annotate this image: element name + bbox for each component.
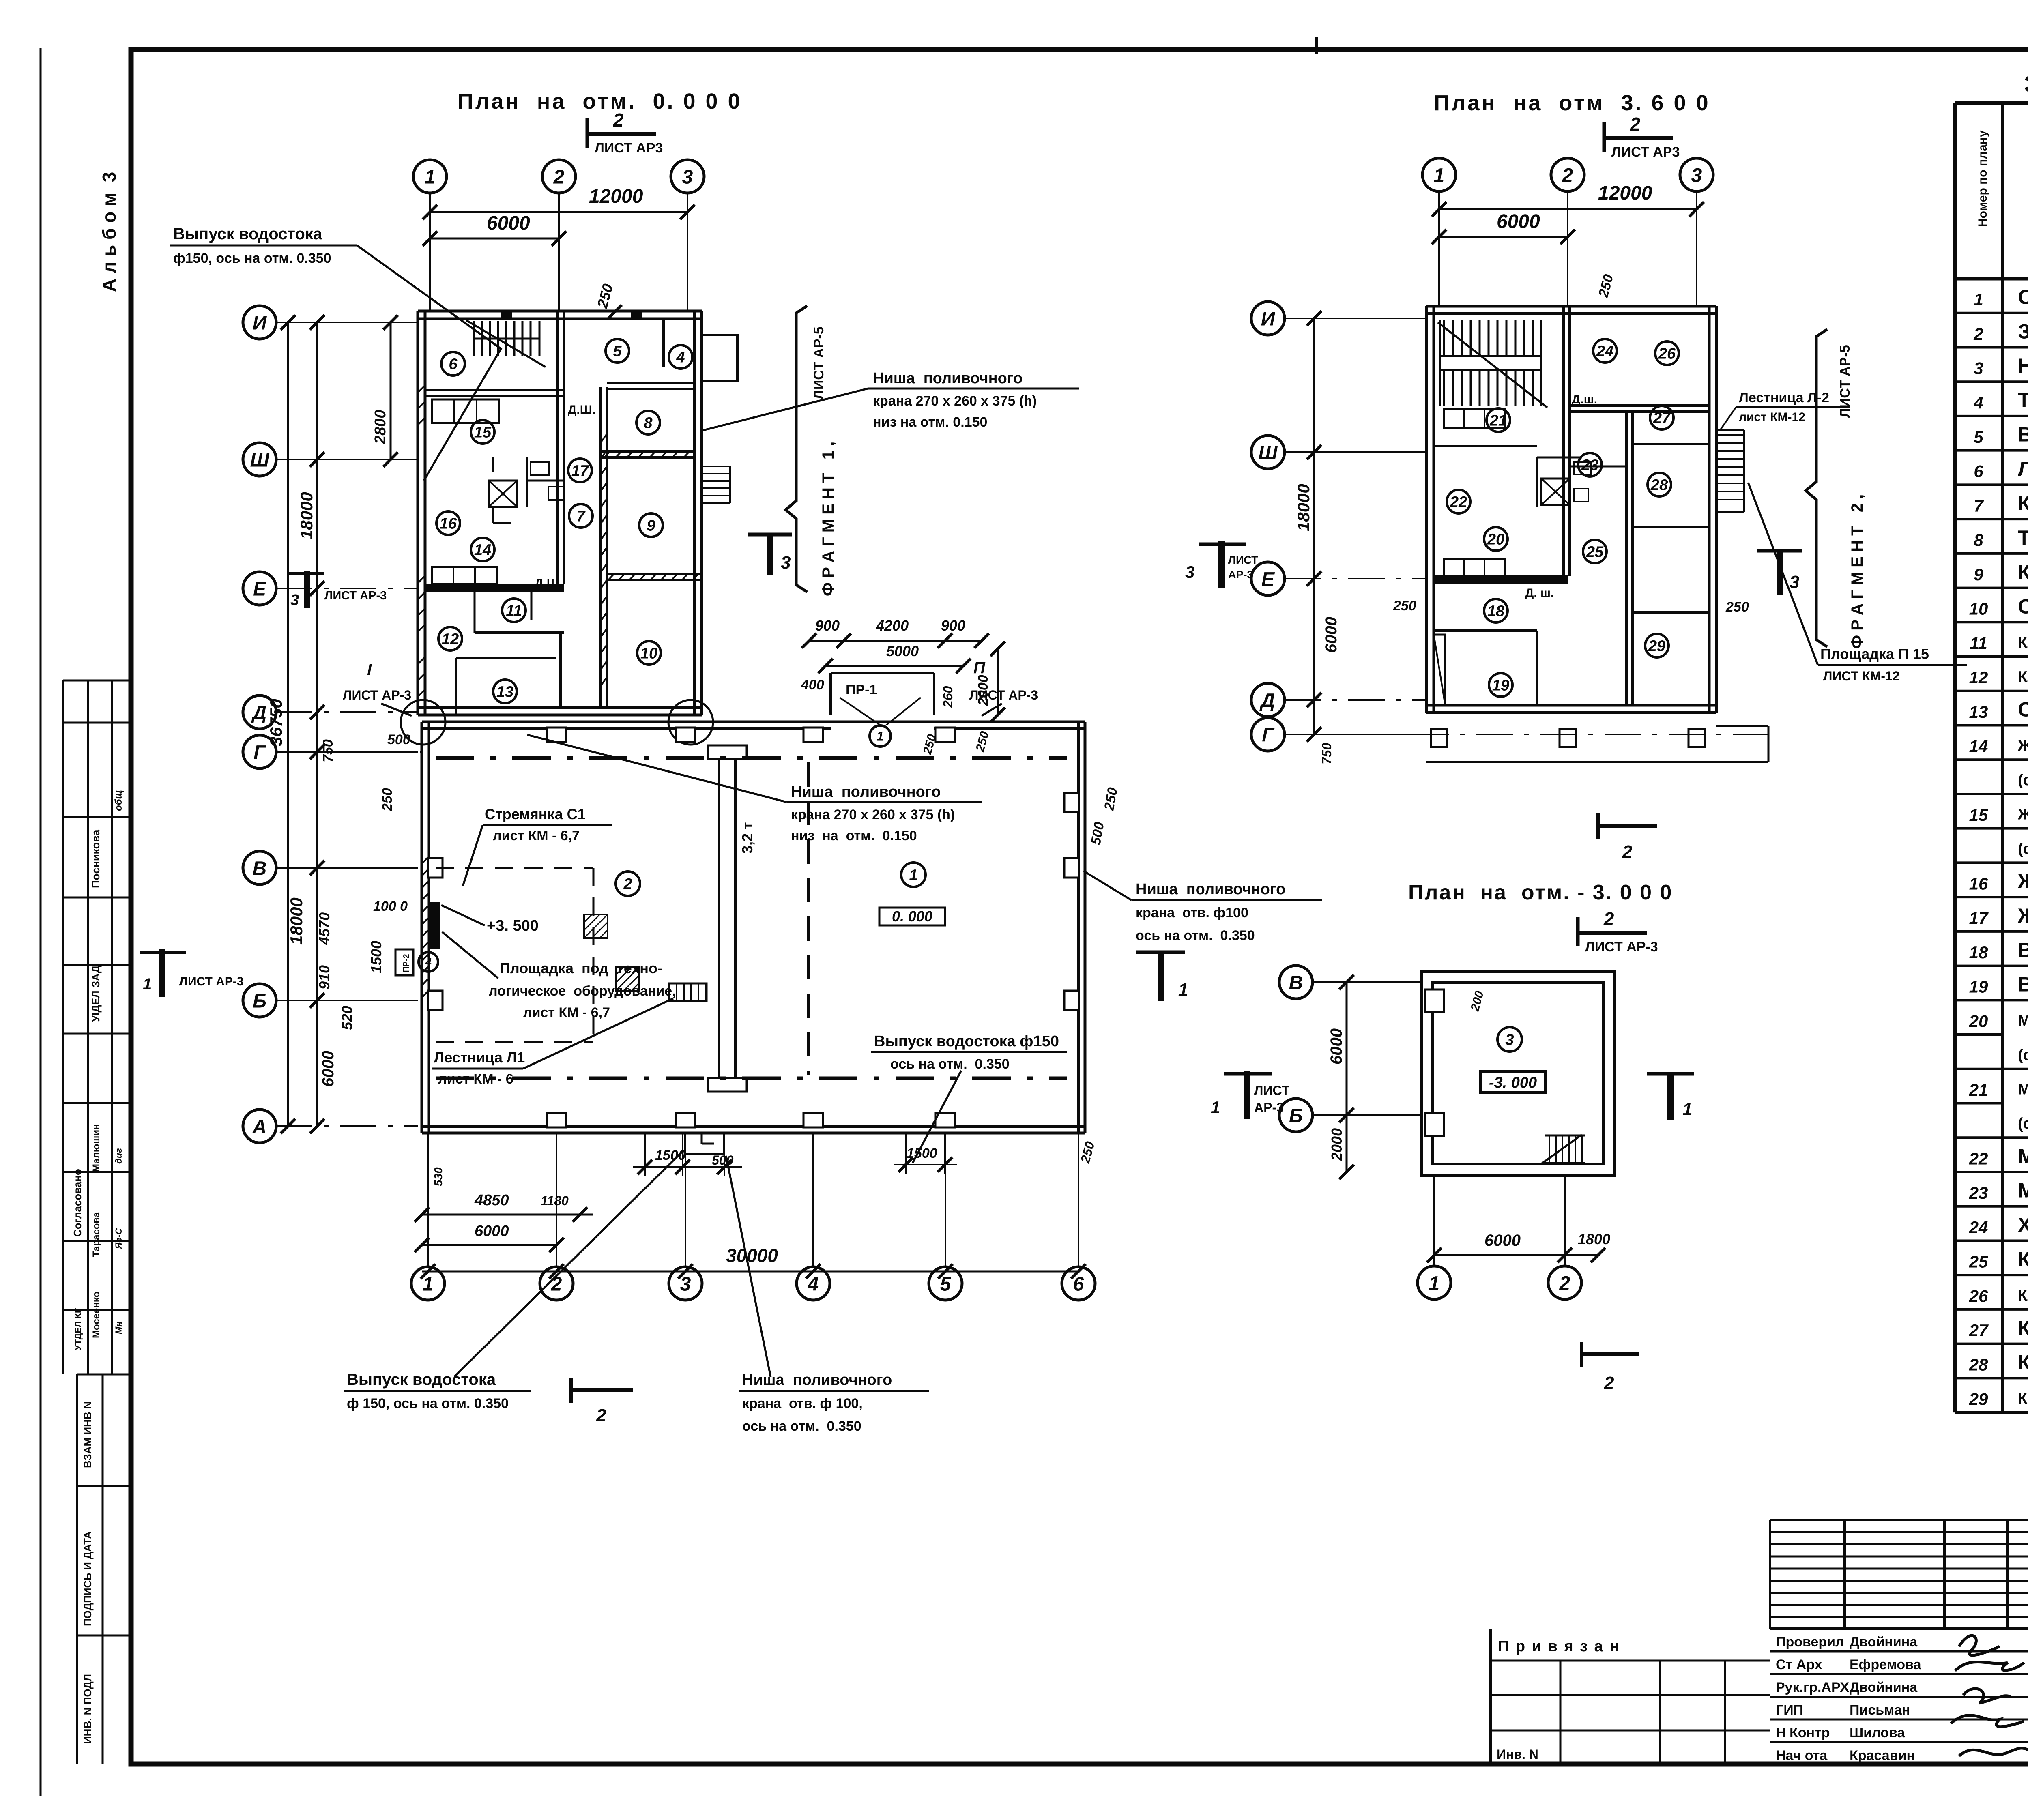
small plan axes <box>1279 966 1313 999</box>
partitions lower rooms 11 12 13 <box>475 631 564 634</box>
left plan: left vertical dim lines <box>287 322 289 1126</box>
svg-text:250: 250 <box>380 788 395 811</box>
svg-text:Красавин: Красавин <box>1850 1748 1915 1763</box>
svg-text:ф150, ось на отм. 0.350: ф150, ось на отм. 0.350 <box>173 251 331 266</box>
svg-text:Яе-С: Яе-С <box>114 1228 124 1249</box>
svg-text:Насосное отделение: Насосное отделение <box>2018 354 2028 377</box>
svg-text:Двойнина: Двойнина <box>1850 1680 1918 1695</box>
svg-text:20: 20 <box>1487 531 1504 548</box>
bottom cut mark 2 (small plan) <box>1582 1342 1639 1393</box>
svg-text:Площадка под техно-: Площадка под техно- <box>500 960 662 977</box>
svg-text:2: 2 <box>1973 324 1983 343</box>
svg-text:(сан. хар. Шв) на 9 чел.: (сан. хар. Шв) на 9 чел. <box>2018 772 2028 789</box>
svg-text:(сан. хар. Шв) на 9 чел.: (сан. хар. Шв) на 9 чел. <box>2018 840 2028 857</box>
svg-text:28: 28 <box>1969 1355 1988 1374</box>
svg-text:5000: 5000 <box>886 643 919 659</box>
svg-text:10: 10 <box>1969 599 1988 618</box>
svg-text:21: 21 <box>1489 412 1507 429</box>
svg-text:Е: Е <box>1261 569 1275 590</box>
svg-text:1: 1 <box>1974 290 1983 309</box>
svg-text:100 0: 100 0 <box>373 899 408 914</box>
svg-text:Тамбур: Тамбур <box>2018 389 2028 412</box>
svg-text:Экспликация помещений: Экспликация помещений <box>2024 71 2028 98</box>
svg-text:Лестница Л1: Лестница Л1 <box>434 1049 525 1066</box>
svg-text:4: 4 <box>1973 393 1983 412</box>
svg-text:400: 400 <box>801 677 824 693</box>
left stamp column grid <box>62 680 64 1374</box>
G axis dash line <box>276 751 422 753</box>
svg-text:14: 14 <box>1969 737 1988 756</box>
svg-text:1500: 1500 <box>368 941 385 973</box>
svg-text:1800: 1800 <box>1578 1231 1610 1247</box>
middle plan axis circles top <box>1422 158 1456 191</box>
svg-text:А: А <box>252 1116 267 1137</box>
svg-text:Сушка одежды: Сушка одежды <box>2018 698 2028 721</box>
middle plan external stair right <box>1718 430 1744 512</box>
svg-text:5: 5 <box>1974 427 1983 446</box>
svg-text:750: 750 <box>320 739 336 762</box>
wall platform marks left <box>429 902 440 949</box>
svg-text:14: 14 <box>474 542 491 559</box>
svg-text:3: 3 <box>1974 359 1983 378</box>
hall columns (pilasters) <box>547 728 566 742</box>
svg-text:7: 7 <box>1974 496 1984 515</box>
svg-text:13: 13 <box>1969 702 1988 721</box>
svg-text:Кладовая хоз. инвентаря: Кладовая хоз. инвентаря <box>2018 1287 2028 1304</box>
svg-text:Номер по плану: Номер по плану <box>1976 130 1989 227</box>
svg-text:ЛИСТ: ЛИСТ <box>1228 554 1258 566</box>
svg-text:3: 3 <box>1691 165 1702 186</box>
svg-text:900: 900 <box>815 617 840 634</box>
hall bottom door bump <box>684 1133 686 1154</box>
partition rooms 5/4 <box>662 319 665 367</box>
middle plan bottom platform <box>1426 761 1768 763</box>
svg-text:ось на отм. 0.350: ось на отм. 0.350 <box>742 1419 861 1434</box>
svg-text:Ниша поливочного: Ниша поливочного <box>742 1371 892 1389</box>
top wall vent marks <box>501 312 512 319</box>
small plan room mark and level <box>1497 1027 1522 1052</box>
corridor wall lower segment <box>559 633 562 708</box>
svg-text:Н Контр: Н Контр <box>1776 1725 1830 1741</box>
svg-text:19: 19 <box>1969 977 1988 996</box>
svg-text:Тепловой ввод: Тепловой ввод <box>2018 526 2028 549</box>
middle plan room circles <box>1593 339 1617 363</box>
fragment 1 brace and label <box>786 306 807 592</box>
svg-text:ЛИСТ АР-3: ЛИСТ АР-3 <box>179 975 244 988</box>
svg-text:Инв. N: Инв. N <box>1497 1747 1538 1762</box>
svg-text:1: 1 <box>1211 1098 1220 1117</box>
svg-text:2: 2 <box>1630 114 1641 135</box>
svg-text:18: 18 <box>1487 603 1505 620</box>
svg-text:2: 2 <box>1604 1373 1614 1393</box>
svg-text:29: 29 <box>1969 1389 1988 1408</box>
svg-text:ПОДПИСЬ И ДАТА: ПОДПИСЬ И ДАТА <box>82 1531 94 1626</box>
svg-text:18000: 18000 <box>297 492 316 539</box>
svg-text:900: 900 <box>941 617 965 634</box>
svg-text:25: 25 <box>1969 1252 1988 1271</box>
bottom cut mark 2 <box>571 1378 633 1425</box>
svg-text:Ниша поливочного: Ниша поливочного <box>791 783 941 801</box>
svg-text:17: 17 <box>571 463 589 480</box>
svg-text:6000: 6000 <box>1328 1028 1345 1065</box>
svg-text:750: 750 <box>1319 743 1334 764</box>
svg-text:К Т П: К Т П <box>2018 561 2028 584</box>
svg-text:Г: Г <box>1262 724 1275 746</box>
svg-text:260: 260 <box>941 686 955 708</box>
section cut mark under title 3.600 <box>1604 114 1680 160</box>
svg-text:1: 1 <box>1434 165 1445 186</box>
svg-text:Двойнина: Двойнина <box>1850 1634 1918 1650</box>
svg-text:1500: 1500 <box>655 1148 686 1163</box>
svg-text:УІДЕЛ ЗАД: УІДЕЛ ЗАД <box>90 965 102 1022</box>
hall wall hatching left <box>422 856 429 998</box>
svg-text:крана отв. ф 100,: крана отв. ф 100, <box>742 1396 863 1411</box>
svg-text:Мужской гардероб спецодежды: Мужской гардероб спецодежды <box>2018 1012 2028 1029</box>
svg-text:+3. 500: +3. 500 <box>487 917 539 934</box>
svg-text:Женский гардероб спецодежды: Женский гардероб спецодежды <box>2017 737 2028 754</box>
svg-text:2: 2 <box>613 109 624 131</box>
svg-text:12000: 12000 <box>1598 182 1652 204</box>
svg-text:2000: 2000 <box>975 675 991 706</box>
svg-text:18000: 18000 <box>287 897 306 945</box>
middle plan building outer walls <box>1426 305 1716 308</box>
table outer and header lines <box>1955 101 2028 105</box>
svg-text:19: 19 <box>1492 677 1509 694</box>
marker 3 list AR-3 mid left <box>289 571 387 609</box>
left plan porch top right <box>702 335 737 381</box>
left plan: top axis circles 1 2 3 <box>413 160 447 193</box>
svg-text:-3. 000: -3. 000 <box>1489 1074 1537 1091</box>
svg-text:Мужской гардероб дом. и ул. од: Мужской гардероб дом. и ул. одежды <box>2018 1081 2028 1098</box>
svg-text:Площадка П 15: Площадка П 15 <box>1820 646 1929 662</box>
svg-text:530: 530 <box>432 1167 445 1186</box>
svg-text:30000: 30000 <box>726 1245 778 1266</box>
svg-text:лист КМ - 6: лист КМ - 6 <box>438 1071 513 1087</box>
svg-text:1: 1 <box>1429 1273 1440 1294</box>
svg-text:11: 11 <box>506 603 522 620</box>
svg-text:8: 8 <box>644 415 653 432</box>
svg-text:Зал фильтр- прессов: Зал фильтр- прессов <box>2018 320 2028 343</box>
middle plan toilet cluster <box>1541 479 1570 505</box>
svg-text:Ст Арх: Ст Арх <box>1776 1657 1822 1672</box>
svg-text:22: 22 <box>1450 494 1467 511</box>
svg-text:ЛИСТ АР-5: ЛИСТ АР-5 <box>1837 345 1853 418</box>
stamp signatures squiggles <box>1951 1635 2028 1756</box>
svg-text:Д Ш: Д Ш <box>535 577 559 590</box>
svg-text:Комната начальника: Комната начальника <box>2018 1351 2028 1374</box>
svg-text:Выпуск водостока: Выпуск водостока <box>173 225 322 243</box>
svg-text:16: 16 <box>440 515 457 532</box>
room circles left plan upper <box>441 352 465 376</box>
section mark T3 inside left plan <box>748 534 792 575</box>
svg-text:крана 270 х 260 х 375 (h): крана 270 х 260 х 375 (h) <box>791 807 955 822</box>
svg-text:24: 24 <box>1596 343 1613 360</box>
svg-text:Выпуск водостока ф150: Выпуск водостока ф150 <box>874 1033 1059 1050</box>
svg-text:16: 16 <box>1969 874 1988 893</box>
svg-text:Комната обслуживающего персона: Комната обслуживающего персонала <box>2018 1390 2028 1407</box>
svg-text:ЛИСТ АР3: ЛИСТ АР3 <box>595 140 663 156</box>
section marks middle plan <box>1757 551 1802 595</box>
svg-text:(сан. хар. Шв) на 10 чел: (сан. хар. Шв) на 10 чел <box>2018 1047 2028 1064</box>
fold marks top <box>1315 37 1318 54</box>
svg-text:Б: Б <box>253 990 266 1012</box>
svg-text:ПР-2: ПР-2 <box>402 954 411 973</box>
svg-text:ПР-1: ПР-1 <box>846 682 877 698</box>
svg-text:Посникова: Посникова <box>90 829 102 888</box>
svg-text:4: 4 <box>425 956 432 968</box>
svg-text:лист КМ-12: лист КМ-12 <box>1739 410 1805 424</box>
detail circles at bottom corners of upper building <box>401 700 445 745</box>
svg-text:Д: Д <box>251 702 267 723</box>
svg-text:20: 20 <box>1969 1011 1988 1030</box>
svg-text:В: В <box>253 858 267 879</box>
marker 1 list AR-3 lower left <box>140 949 244 997</box>
fragment 2 brace and label <box>1806 329 1827 647</box>
svg-text:500: 500 <box>387 732 410 747</box>
svg-text:23: 23 <box>1581 457 1598 474</box>
svg-text:9: 9 <box>647 517 655 534</box>
left wall hatch marks <box>418 385 425 697</box>
bottom cut mark 2 (middle plan) <box>1598 813 1657 862</box>
svg-text:Рук.гр.АРХ: Рук.гр.АРХ <box>1776 1680 1849 1695</box>
svg-text:ГИП: ГИП <box>1776 1702 1803 1718</box>
paper fold line left <box>40 48 42 1796</box>
svg-text:Д.ш.: Д.ш. <box>1572 393 1597 406</box>
crane rail dash-dot lines <box>436 756 1067 760</box>
svg-text:3: 3 <box>1505 1032 1514 1049</box>
wall below room 9 <box>607 573 702 575</box>
svg-text:Ф Р А Г М Е Н Т 1 ,: Ф Р А Г М Е Н Т 1 , <box>819 442 837 596</box>
svg-text:1: 1 <box>877 729 884 744</box>
svg-text:Ш: Ш <box>1259 442 1278 464</box>
hatched equipment pads <box>584 914 608 938</box>
svg-text:Г: Г <box>253 742 266 763</box>
svg-text:3: 3 <box>1790 572 1799 592</box>
svg-text:4850: 4850 <box>474 1192 509 1209</box>
svg-text:ЛИСТ АР-3: ЛИСТ АР-3 <box>343 688 411 702</box>
svg-text:Коридор: Коридор <box>2018 1248 2028 1271</box>
svg-text:лист КМ - 6,7: лист КМ - 6,7 <box>493 828 580 843</box>
svg-text:Тарасова: Тарасова <box>91 1212 102 1257</box>
svg-text:1: 1 <box>425 166 436 188</box>
stamp: upper revision grid <box>1769 1520 1771 1629</box>
svg-text:12: 12 <box>1969 668 1988 687</box>
lestnitsa L1 stair rect <box>669 983 707 1001</box>
svg-text:Мужская душевая: Мужская душевая <box>2018 1145 2028 1168</box>
svg-text:6000: 6000 <box>1322 617 1340 653</box>
small plan outer walls <box>1421 971 1615 1176</box>
svg-text:Операторская: Операторская <box>2018 595 2028 618</box>
svg-text:Б: Б <box>1289 1105 1303 1127</box>
svg-text:12: 12 <box>442 631 459 648</box>
svg-text:Согласовано: Согласовано <box>71 1169 84 1237</box>
svg-text:3: 3 <box>781 553 791 573</box>
svg-text:1: 1 <box>143 975 152 993</box>
svg-text:3: 3 <box>682 166 693 188</box>
svg-text:ЛИСТ АР-3: ЛИСТ АР-3 <box>1585 939 1658 955</box>
svg-text:6000: 6000 <box>1484 1232 1521 1249</box>
svg-text:Ефремова: Ефремова <box>1850 1657 1922 1672</box>
svg-text:15: 15 <box>1969 805 1988 824</box>
svg-text:4200: 4200 <box>876 617 909 634</box>
svg-text:Венткамера приточная: Венткамера приточная <box>2018 973 2028 996</box>
svg-text:АР-3: АР-3 <box>1228 569 1253 581</box>
svg-text:21: 21 <box>1969 1080 1988 1099</box>
svg-text:6: 6 <box>1974 462 1983 481</box>
svg-text:АР-3: АР-3 <box>1254 1100 1284 1115</box>
svg-text:Комната приема пищи: Комната приема пищи <box>2018 1317 2028 1339</box>
svg-text:29: 29 <box>1648 638 1665 655</box>
svg-text:6000: 6000 <box>319 1051 337 1087</box>
svg-text:18: 18 <box>1969 943 1988 962</box>
section cut mark under title -3.000 <box>1578 908 1658 955</box>
svg-text:2: 2 <box>1559 1273 1570 1294</box>
svg-text:2: 2 <box>596 1406 606 1425</box>
svg-text:ф 150, ось на отм. 0.350: ф 150, ось на отм. 0.350 <box>347 1396 509 1411</box>
bottom axis circles 1-6 <box>411 1267 445 1300</box>
svg-text:План на отм. 0. 0 0 0: План на отм. 0. 0 0 0 <box>458 89 742 114</box>
svg-text:3: 3 <box>290 592 299 609</box>
svg-text:План на отм 3. 6 0 0: План на отм 3. 6 0 0 <box>1434 91 1710 115</box>
svg-text:4570: 4570 <box>316 912 333 945</box>
svg-text:крана отв. ф100: крана отв. ф100 <box>1136 905 1248 921</box>
svg-text:Кладовая грязной спецодежды: Кладовая грязной спецодежды <box>2018 669 2028 686</box>
svg-text:Венткамера вытяжная: Венткамера вытяжная <box>2018 939 2028 962</box>
svg-text:Ниша поливочного: Ниша поливочного <box>1136 881 1285 898</box>
svg-text:Ф Р А Г М Е Н Т 2 ,: Ф Р А Г М Е Н Т 2 , <box>1848 494 1866 649</box>
svg-text:7: 7 <box>576 508 586 525</box>
svg-text:10: 10 <box>640 645 657 662</box>
svg-text:лист КМ - 6,7: лист КМ - 6,7 <box>523 1005 610 1020</box>
left plan internal walls upper part <box>425 389 564 391</box>
stamp: staff rows <box>1770 1650 2028 1653</box>
svg-text:15: 15 <box>474 424 492 441</box>
svg-text:И: И <box>1261 308 1276 330</box>
svg-text:Ниша поливочного: Ниша поливочного <box>873 370 1023 387</box>
svg-text:26: 26 <box>1658 346 1676 363</box>
svg-text:13: 13 <box>496 684 513 701</box>
crane runway beam <box>719 748 735 1091</box>
svg-text:крана 270 х 260 х 375 (h): крана 270 х 260 х 375 (h) <box>873 393 1037 409</box>
room mark 2 and 1, level 0.000 <box>616 871 640 896</box>
left plan: left axis circles <box>243 306 276 339</box>
svg-text:2: 2 <box>1622 842 1633 862</box>
svg-text:Выпуск водостока: Выпуск водостока <box>347 1371 496 1389</box>
svg-text:2800: 2800 <box>372 410 389 444</box>
external stair right of upper building <box>703 466 730 503</box>
svg-text:А л ь б о м 3: А л ь б о м 3 <box>99 172 120 292</box>
svg-text:3,2 т: 3,2 т <box>739 822 756 854</box>
svg-text:Кладовая чистой спецодежды: Кладовая чистой спецодежды <box>2018 634 2028 651</box>
svg-text:ЛИСТ АР-3: ЛИСТ АР-3 <box>324 589 387 602</box>
middle plan stair top left <box>1438 320 1547 408</box>
svg-text:2: 2 <box>553 166 565 188</box>
svg-text:17: 17 <box>1969 908 1989 927</box>
stamp: left privyazan part <box>1489 1629 1492 1765</box>
svg-text:9: 9 <box>1974 565 1983 584</box>
small plan section marks <box>1211 1071 1290 1119</box>
hall outer walls <box>422 721 1085 723</box>
svg-text:План на отм. - 3. 0 0 0: План на отм. - 3. 0 0 0 <box>1408 881 1673 904</box>
svg-text:И: И <box>253 312 267 334</box>
svg-text:27: 27 <box>1969 1321 1989 1340</box>
svg-text:Шилова: Шилова <box>1850 1725 1905 1741</box>
small plan niches left wall <box>1425 989 1444 1012</box>
svg-text:25: 25 <box>1586 544 1604 561</box>
svg-text:Мужская уборная: Мужская уборная <box>2018 1179 2028 1202</box>
svg-text:6: 6 <box>449 356 458 373</box>
svg-text:П: П <box>973 659 986 677</box>
svg-text:низ на отм. 0.150: низ на отм. 0.150 <box>791 828 917 843</box>
svg-text:12000: 12000 <box>589 186 643 207</box>
svg-text:0. 000: 0. 000 <box>892 908 932 925</box>
svg-text:Е: Е <box>253 578 267 600</box>
svg-text:П р и в я з а н: П р и в я з а н <box>1498 1638 1620 1655</box>
svg-text:1: 1 <box>1178 980 1188 1000</box>
svg-text:Стремянка С1: Стремянка С1 <box>485 806 586 822</box>
svg-text:Д. ш.: Д. ш. <box>1525 586 1554 600</box>
svg-text:22: 22 <box>1969 1149 1988 1168</box>
svg-text:1: 1 <box>1682 1099 1692 1119</box>
svg-text:ЛИСТ: ЛИСТ <box>1254 1083 1290 1098</box>
svg-text:логическое оборудование,: логическое оборудование, <box>489 983 676 999</box>
svg-text:520: 520 <box>339 1006 355 1030</box>
svg-text:8: 8 <box>1974 530 1983 549</box>
svg-text:6000: 6000 <box>487 212 530 234</box>
left plan stair in room 6 <box>466 320 546 367</box>
svg-text:ось на отм. 0.350: ось на отм. 0.350 <box>1136 928 1255 943</box>
svg-text:Отделение реагентов: Отделение реагентов <box>2018 286 2028 309</box>
svg-text:250: 250 <box>1725 599 1749 615</box>
svg-text:Коридор: Коридор <box>2018 492 2028 515</box>
svg-text:1180: 1180 <box>541 1193 569 1208</box>
small plan stairs bottom right <box>1541 1135 1585 1164</box>
svg-text:5: 5 <box>613 343 622 360</box>
svg-text:Женская душевая: Женская душевая <box>2017 870 2028 893</box>
svg-text:36750: 36750 <box>266 699 286 746</box>
svg-text:Письман: Письман <box>1850 1702 1910 1718</box>
svg-text:6000: 6000 <box>1497 211 1540 232</box>
svg-text:27: 27 <box>1653 410 1671 427</box>
section cut mark under title 0.000 <box>587 109 663 156</box>
left plan upper building outer walls <box>418 310 702 313</box>
svg-text:общ: общ <box>113 790 124 811</box>
svg-text:Нач ота: Нач ота <box>1776 1748 1828 1763</box>
svg-text:I: I <box>367 661 372 679</box>
svg-text:Вестибюль: Вестибюль <box>2018 423 2028 446</box>
svg-text:24: 24 <box>1969 1218 1988 1237</box>
svg-text:низ на отм. 0.150: низ на отм. 0.150 <box>873 414 987 430</box>
svg-text:250: 250 <box>1393 598 1416 614</box>
svg-text:1: 1 <box>909 867 917 884</box>
svg-text:4: 4 <box>676 349 685 366</box>
svg-text:11: 11 <box>1970 633 1987 652</box>
svg-text:УТДЕЛ КГ: УТДЕЛ КГ <box>73 1308 83 1350</box>
svg-text:ось на отм. 0.350: ось на отм. 0.350 <box>890 1056 1010 1072</box>
svg-text:Женский гардероб дом. и ул. о: Женский гардероб дом. и ул. одежды <box>2017 806 2028 823</box>
middle plan internal walls <box>1562 306 1565 576</box>
svg-text:6000: 6000 <box>475 1223 509 1240</box>
svg-text:ИНВ. N ПОДЛ: ИНВ. N ПОДЛ <box>82 1674 94 1744</box>
svg-text:23: 23 <box>1969 1183 1988 1202</box>
svg-text:2: 2 <box>1603 908 1614 929</box>
svg-text:Мн: Мн <box>114 1321 124 1334</box>
dashed partition lines hall <box>807 762 810 1075</box>
svg-text:910: 910 <box>316 965 333 989</box>
svg-text:Лестничная клетка: Лестничная клетка <box>2018 457 2028 480</box>
svg-text:2000: 2000 <box>1328 1128 1345 1161</box>
svg-text:В: В <box>1289 972 1303 994</box>
